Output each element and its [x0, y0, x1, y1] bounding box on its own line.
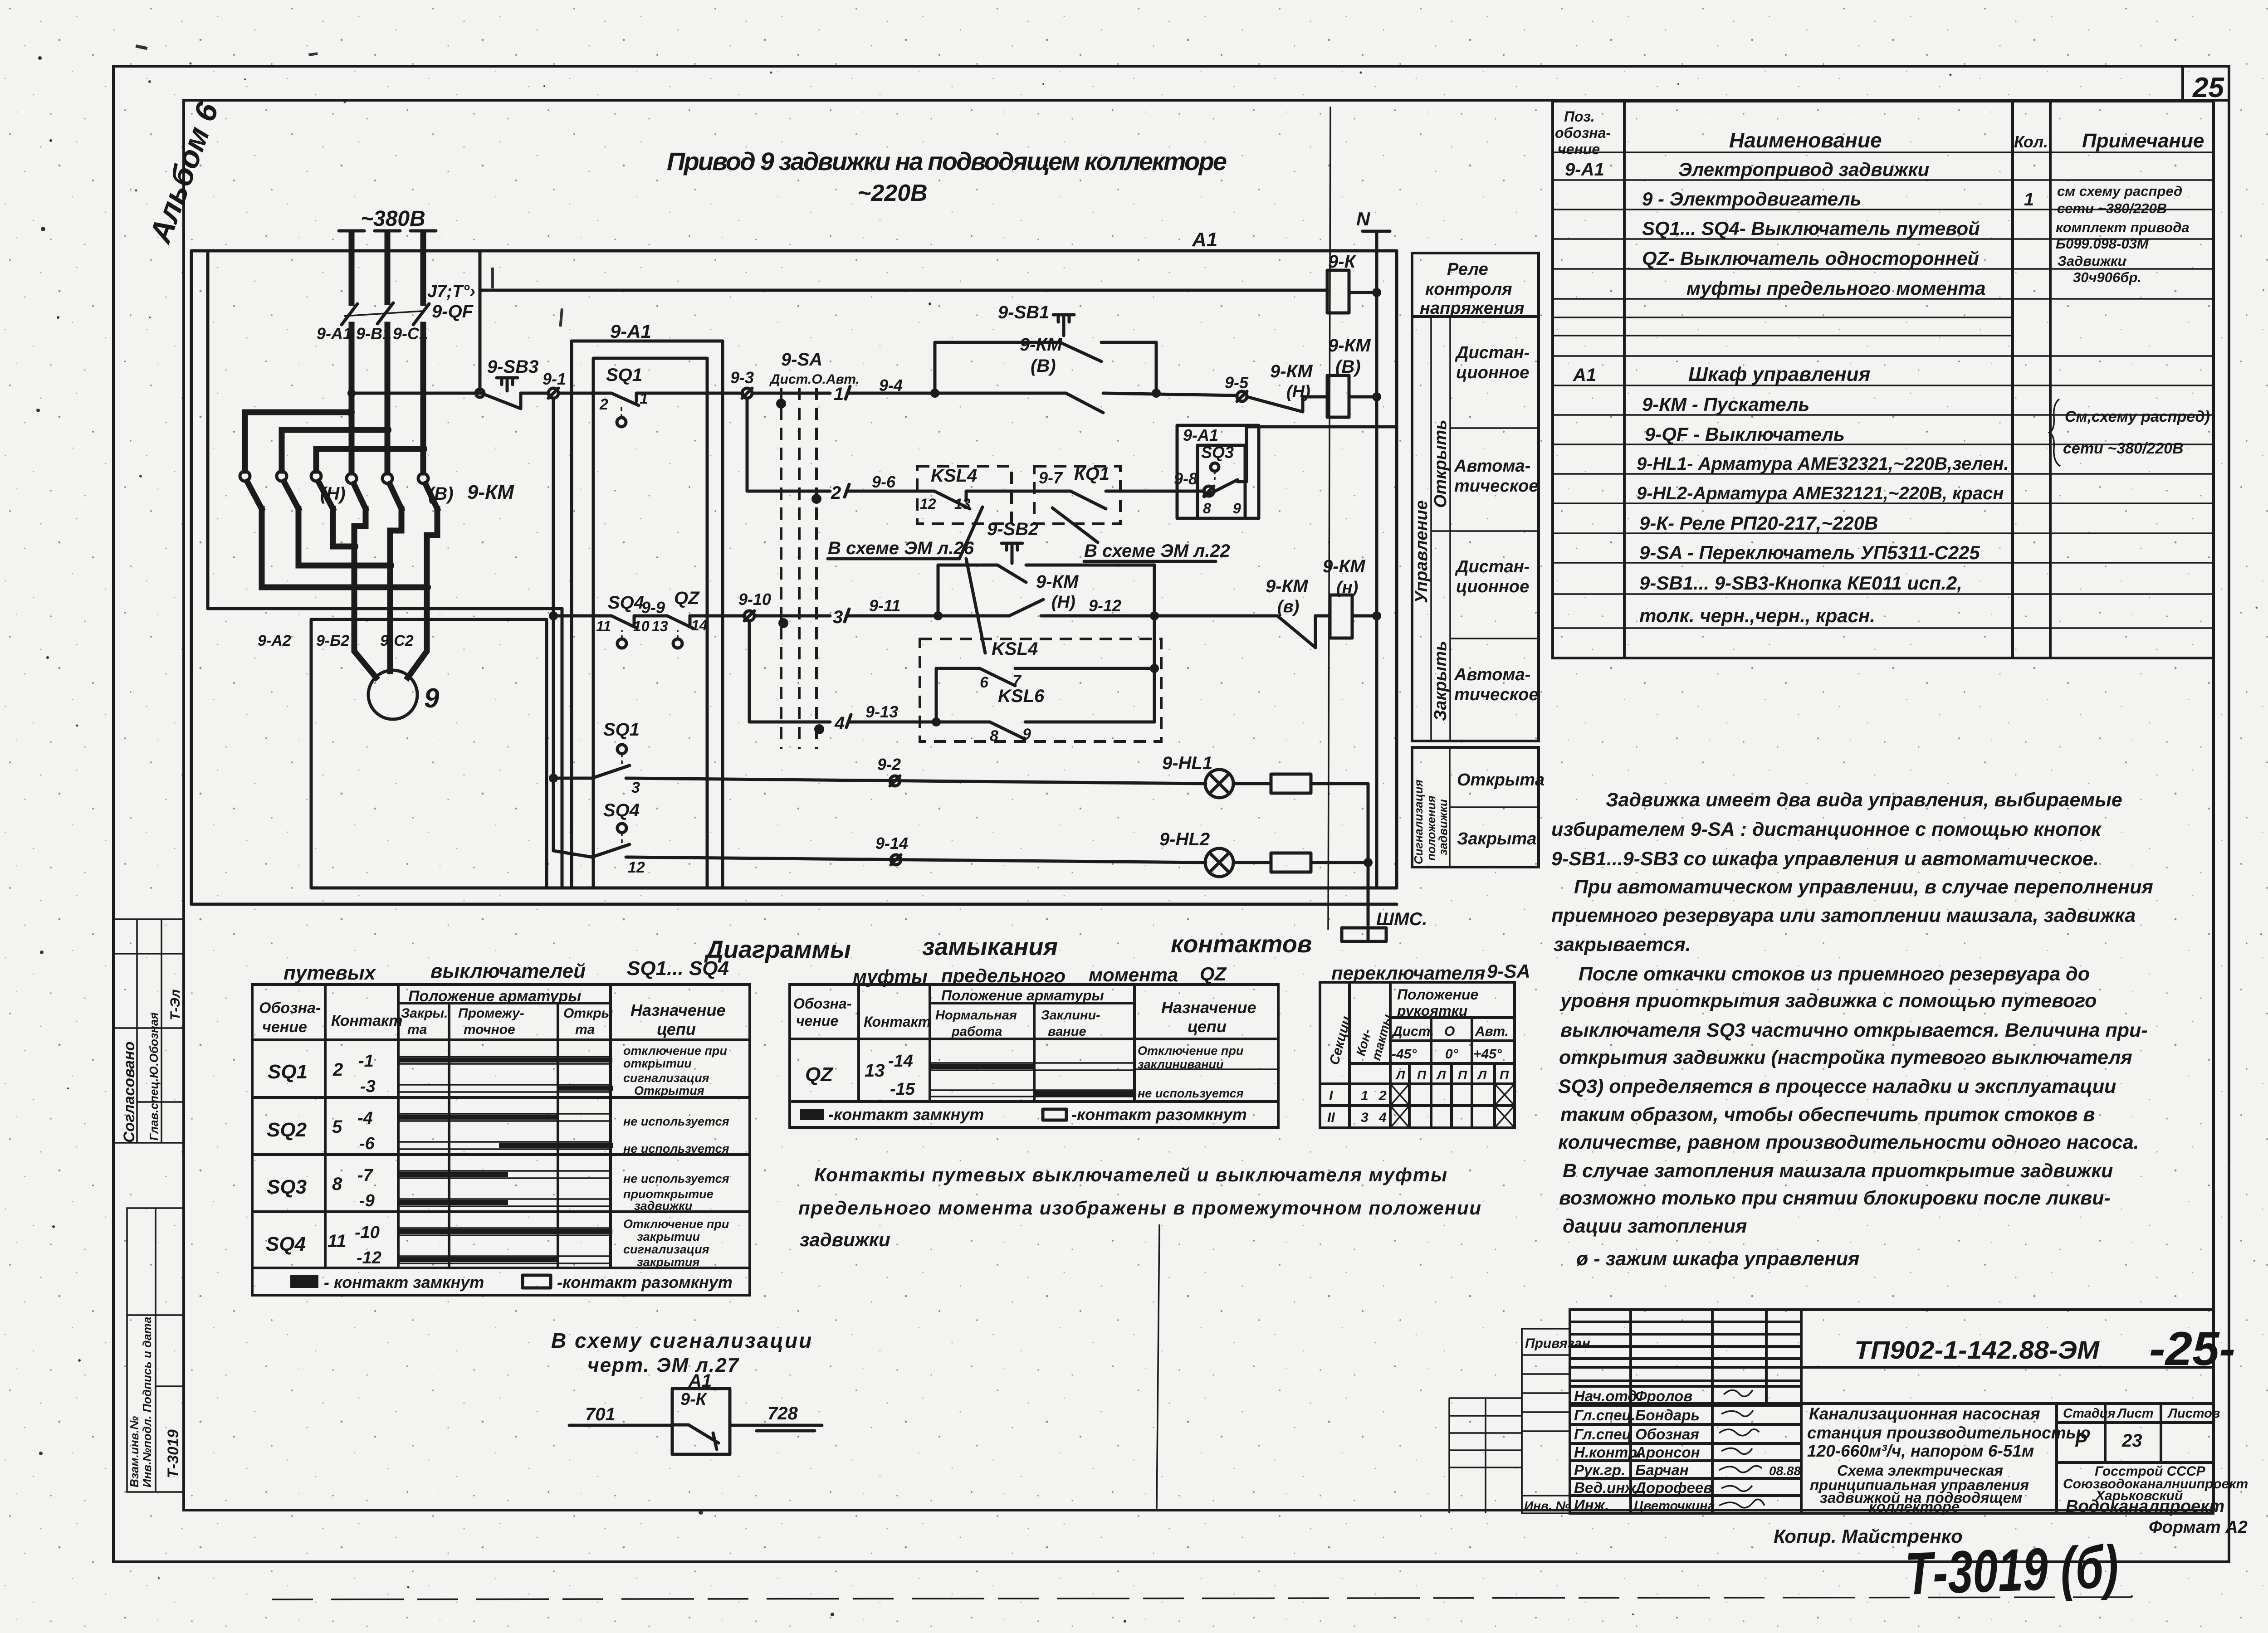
- SB2 branch wire to right: [1026, 564, 1154, 567]
- svg-text:В схеме ЭМ л.22: В схеме ЭМ л.22: [1084, 541, 1230, 561]
- svg-text:(В): (В): [428, 484, 454, 504]
- SQ2 closed bars: [399, 1115, 613, 1148]
- rung2 wire: [846, 490, 934, 493]
- svg-text:Т-3019: Т-3019: [165, 1429, 182, 1478]
- svg-text:ТП902-1-142.88-ЭМ: ТП902-1-142.88-ЭМ: [1854, 1336, 2100, 1364]
- wire to coil 9-KM(B): [1303, 395, 1327, 399]
- motor box left: [310, 619, 313, 888]
- selector dot rung1: [776, 399, 786, 409]
- svg-text:9-КМ - Пускатель: 9-КМ - Пускатель: [1642, 394, 1809, 415]
- SA header Положение рукоятки: [1397, 986, 1478, 1019]
- QZ table: [790, 985, 1278, 1127]
- phase bus B cap: [375, 229, 400, 233]
- junction 9-K neutral: [1372, 288, 1381, 297]
- big caption Диаграммы замыкания контактов: [704, 931, 1312, 963]
- drawing name: [1810, 1462, 2029, 1515]
- svg-text:2: 2: [1378, 1088, 1387, 1103]
- svg-text:чение: чение: [262, 1019, 307, 1036]
- svg-text:9-КМ: 9-КМ: [1270, 361, 1313, 381]
- junction latch right: [1152, 389, 1161, 398]
- svg-text:обозна-: обозна-: [1555, 125, 1611, 141]
- svg-text:предельного момента изоб: предельного момента изображены в промежу…: [798, 1197, 1481, 1219]
- svg-text:количестве, равном производит: количестве, равном производительности од…: [1558, 1131, 2139, 1153]
- terminal 9-3: [742, 388, 752, 398]
- SA header Дист О Авт: [1391, 1024, 1509, 1039]
- contactor 9-KM (B) pole 2: [382, 473, 401, 531]
- svg-text:9-SB2: 9-SB2: [987, 519, 1038, 539]
- component table frame: [1553, 101, 2214, 658]
- leader note В схеме ЭМ л.22: [1052, 508, 1230, 561]
- svg-text:Цветочкина: Цветочкина: [1634, 1499, 1715, 1513]
- rung3 wire to interlock: [1041, 614, 1277, 618]
- svg-text:Шкаф управления: Шкаф управления: [1688, 363, 1871, 385]
- SA row I: [1329, 1088, 1387, 1103]
- wire resistor to collector: [1311, 782, 1368, 785]
- svg-text:Отключение при: Отключение при: [1138, 1044, 1244, 1058]
- junction 9-KM(B) neutral: [1372, 392, 1381, 401]
- svg-text:П: П: [1417, 1068, 1427, 1082]
- svg-text:-контакт замкнут: -контакт замкнут: [828, 1105, 984, 1124]
- button 9-SB1 head: [1053, 315, 1074, 336]
- sheet number box 25: [2183, 66, 2229, 103]
- svg-text:Дист.О.Авт.: Дист.О.Авт.: [769, 372, 860, 387]
- svg-text:напряжения: напряжения: [1420, 299, 1525, 318]
- svg-text:9-11: 9-11: [869, 596, 900, 615]
- breaker 9-QF pole B contact: [377, 303, 393, 324]
- svg-text:КQ1: КQ1: [1074, 464, 1110, 484]
- svg-text:Гл.спец: Гл.спец: [1574, 1426, 1632, 1443]
- terminal 9-2: [890, 776, 900, 786]
- svg-text:9-С2: 9-С2: [380, 632, 414, 649]
- SQ header Назначение цепи: [631, 1001, 726, 1038]
- breaker 9-QF pole A contact: [342, 304, 357, 325]
- svg-text:Промежу-: Промежу-: [458, 1006, 524, 1021]
- QZ header Нормальная работа: [935, 1008, 1017, 1039]
- svg-text:2: 2: [332, 1060, 343, 1080]
- svg-text:Гл.спец.: Гл.спец.: [1574, 1407, 1636, 1423]
- svg-text:Нач.отд.: Нач.отд.: [1574, 1388, 1641, 1404]
- selector dot rung3: [778, 618, 788, 628]
- svg-text:предельного: предельного: [941, 965, 1066, 986]
- svg-text:Рук.гр.: Рук.гр.: [1574, 1462, 1625, 1478]
- svg-text:-9: -9: [359, 1191, 375, 1210]
- partial-open switch box inner: [1198, 445, 1245, 518]
- rung 1 open-command line: [352, 392, 482, 395]
- phase C feeder below breaker: [420, 325, 426, 473]
- QZ legend closed: [800, 1105, 984, 1124]
- purpose отключение при открытии: [623, 1044, 727, 1070]
- svg-text:ø - зажим шкафа управле: ø - зажим шкафа управления: [1576, 1248, 1859, 1270]
- svg-text:30ч906бр.: 30ч906бр.: [2073, 269, 2141, 285]
- SQ col dividers: [325, 985, 611, 1268]
- interlock contact 9-KM(H) NC: [1247, 396, 1303, 412]
- terminal 9-8: [1204, 486, 1214, 496]
- rung 9-2 wire: [626, 778, 1206, 784]
- svg-text:-контакт разомкнут: -контакт разомкнут: [557, 1273, 733, 1292]
- leader note В схеме ЭМ л.26: [828, 507, 985, 653]
- QZ header Заклинивание: [1041, 1008, 1100, 1039]
- note Контакты путевых выключателей: [798, 1164, 1481, 1250]
- svg-text:Реле: Реле: [1447, 260, 1488, 279]
- enclosure bottom rail: [311, 887, 1397, 890]
- cell Дистанционное (open): [1450, 343, 1539, 428]
- svg-text:Б099.098-03М: Б099.098-03М: [2056, 236, 2149, 252]
- side column Привязан: [1522, 1329, 1590, 1513]
- junction rung3 SB2 right: [1150, 611, 1159, 620]
- SA row II: [1327, 1110, 1387, 1125]
- svg-text:Положение арматуры: Положение арматуры: [941, 987, 1104, 1004]
- svg-text:сигнализация: сигнализация: [623, 1071, 709, 1085]
- rung 3 close-command line: [553, 614, 611, 618]
- svg-text:9-7: 9-7: [1039, 468, 1063, 487]
- purpose приоткрытие задвижки: [623, 1187, 714, 1213]
- QZ header Обозначение: [793, 995, 851, 1029]
- svg-text:QZ: QZ: [674, 588, 700, 608]
- KSL4 lower contact: [980, 668, 1015, 686]
- node 3 tick: [845, 609, 849, 622]
- signature row Вед инж: [1574, 1479, 1712, 1496]
- svg-text:9-А1: 9-А1: [1183, 426, 1218, 444]
- svg-text:Задвижки: Задвижки: [2058, 253, 2126, 269]
- wire coil 9-K to neutral: [1349, 291, 1377, 294]
- svg-text:Открытия: Открытия: [634, 1084, 704, 1097]
- svg-text:6: 6: [980, 674, 989, 691]
- project description: [1807, 1404, 2091, 1460]
- header Поз.обозначение: [1555, 108, 1611, 157]
- rung4 wire to right riser: [1025, 721, 1154, 724]
- drive unit box 9-A1 inner: [593, 358, 707, 888]
- svg-text:точное: точное: [464, 1022, 515, 1037]
- svg-text:П: П: [1458, 1068, 1467, 1082]
- link N-contact3 to motor lead A: [333, 544, 354, 550]
- relay 9-K feed line: [480, 289, 1327, 292]
- svg-text:4: 4: [834, 713, 845, 733]
- coil 9-KM(B): [1327, 375, 1349, 417]
- svg-text:Примечание: Примечание: [2082, 130, 2204, 152]
- right edge scan noise band: [2253, 54, 2268, 1516]
- node at 9-SB3: [476, 389, 484, 397]
- svg-text:9-9: 9-9: [641, 598, 665, 617]
- KSL lower dashed box: [920, 639, 1161, 741]
- svg-text:9-КМ: 9-КМ: [1036, 572, 1079, 592]
- svg-text:QZ: QZ: [805, 1063, 834, 1086]
- SB2 branch top wire: [938, 564, 997, 567]
- svg-text:Т-3019 (б): Т-3019 (б): [1904, 1533, 2120, 1607]
- svg-text:Барчан: Барчан: [1635, 1462, 1689, 1478]
- svg-text:Контакт: Контакт: [864, 1014, 931, 1030]
- svg-text:Водоканалпроект: Водоканалпроект: [2066, 1497, 2224, 1516]
- enclosure right edge: [1395, 251, 1398, 888]
- terminal 9-5: [1237, 391, 1247, 401]
- svg-text:2: 2: [831, 483, 841, 503]
- svg-text:Фролов: Фролов: [1635, 1388, 1692, 1404]
- svg-text:та: та: [575, 1022, 595, 1037]
- svg-text:9-5: 9-5: [1225, 373, 1249, 392]
- SA X mark row2 col6: [1495, 1106, 1515, 1128]
- QZ table frame: [790, 985, 1278, 1127]
- svg-text:закрытия: закрытия: [637, 1255, 700, 1269]
- junction phase A tap: [347, 408, 355, 416]
- svg-text:9-13: 9-13: [865, 702, 898, 721]
- caption муфты предельного момента QZ: [853, 963, 1227, 987]
- SQ header lines: [252, 1003, 750, 1268]
- SA rotated header Контакты: [1354, 1013, 1395, 1062]
- svg-text:цепи: цепи: [1188, 1017, 1227, 1036]
- svg-text:Инж.: Инж.: [1574, 1497, 1609, 1513]
- motor lead C: [408, 535, 427, 678]
- svg-text:SQ4: SQ4: [608, 593, 644, 613]
- svg-text:~380В: ~380В: [361, 207, 425, 231]
- junction latch left: [930, 389, 939, 398]
- svg-text:13: 13: [954, 496, 971, 512]
- junction rung3 left: [549, 611, 558, 620]
- svg-text:не используется: не используется: [623, 1172, 729, 1185]
- SA header angles: [1392, 1047, 1502, 1062]
- junction on lead B: [386, 561, 394, 570]
- svg-text:9-Б2: 9-Б2: [316, 632, 349, 649]
- svg-text:ционное: ционное: [1456, 577, 1529, 596]
- SQ1 designation: [268, 1052, 376, 1096]
- rung4 wire: [848, 721, 990, 724]
- junction KSL right: [1150, 664, 1159, 673]
- svg-text:А1: А1: [1192, 229, 1217, 251]
- SA X mark row1 col6: [1495, 1084, 1515, 1106]
- terminal 9-14: [891, 855, 901, 865]
- svg-text:(В): (В): [1031, 356, 1056, 376]
- svg-text:Закрыта: Закрыта: [1457, 829, 1536, 848]
- partial-open switch box 9-A1 outer: [1177, 425, 1259, 518]
- crossover loop phase A to reverse contact 1: [245, 412, 351, 471]
- svg-text:KSL4: KSL4: [931, 466, 977, 486]
- SB2 branch left riser: [937, 565, 940, 616]
- inner drawing frame: [184, 100, 2214, 1510]
- SQ header Закрыта: [401, 1006, 448, 1037]
- svg-text:коллекторе: коллекторе: [1869, 1498, 1960, 1515]
- svg-text:Автома-: Автома-: [1454, 665, 1530, 684]
- svg-text:см схему распред: см схему распред: [2057, 183, 2182, 199]
- svg-text:закрывается.: закрывается.: [1554, 934, 1691, 955]
- relay column header box: [1412, 253, 1539, 317]
- svg-text:Назначение: Назначение: [1161, 998, 1256, 1017]
- svg-text:Закры.: Закры.: [401, 1006, 448, 1021]
- svg-text:путевых: путевых: [283, 962, 376, 984]
- selector dashed line O: [798, 388, 801, 749]
- SB2 branch right riser: [1153, 565, 1156, 722]
- SQ1 state rows: [398, 1057, 611, 1092]
- selector dot rung2: [811, 494, 821, 504]
- phase bus A bar: [349, 232, 355, 303]
- KSL4 lower branch top wire: [936, 667, 980, 670]
- SQ header Открыта: [563, 1006, 613, 1037]
- contactor 9-KM (N) pole 2: [277, 471, 298, 565]
- signature row Инж: [1574, 1497, 1715, 1513]
- svg-text:KSL4: KSL4: [992, 639, 1038, 659]
- svg-text:9-КМ: 9-КМ: [1328, 336, 1371, 356]
- motor 9 circle: [368, 670, 417, 719]
- SQ3 designation: [267, 1166, 375, 1210]
- junction 9-KM(H) neutral: [1372, 611, 1381, 620]
- svg-text:9-КМ: 9-КМ: [1323, 556, 1366, 576]
- selector dot rung4: [814, 724, 824, 734]
- signature row Нач отд: [1574, 1388, 1692, 1404]
- svg-text:закрытии: закрытии: [637, 1230, 700, 1243]
- motor box top: [311, 618, 547, 621]
- SQ3 closed bars: [399, 1172, 508, 1205]
- svg-text:-10: -10: [355, 1223, 380, 1242]
- SQ2 designation: [267, 1109, 375, 1153]
- svg-text:заклинивании: заклинивании: [1138, 1058, 1224, 1071]
- SQ4 contact on rung3: [611, 616, 637, 648]
- SQ3 plunger: [1211, 463, 1219, 481]
- cell Открыта: [1450, 770, 1545, 807]
- svg-text:П: П: [1500, 1068, 1509, 1082]
- svg-text:Лист: Лист: [2116, 1406, 2154, 1421]
- svg-text:тическое: тическое: [1454, 685, 1539, 704]
- wire to terminal 9-8: [1106, 490, 1204, 493]
- enclosure outer left edge: [190, 251, 193, 904]
- svg-text:не используется: не используется: [623, 1115, 729, 1128]
- signature row Гл спец: [1574, 1407, 1700, 1423]
- SQ1 lamp contact: [592, 745, 630, 778]
- lamp rung 9-2 from SQ1: [549, 774, 592, 783]
- svg-text:1: 1: [834, 384, 844, 404]
- lamp rung 9-14 from SQ4: [553, 851, 592, 857]
- rotated label Сигнализация положения задвижки: [1412, 747, 1450, 867]
- wire 701: [569, 1404, 672, 1425]
- SQ3 state rows: [398, 1171, 611, 1206]
- bottom torn edge line: [272, 1597, 2132, 1599]
- fuse ШМС: [1342, 928, 1386, 941]
- button 9-SB2 contact: [997, 565, 1026, 582]
- row 9 Электродвигатель: [1642, 188, 2034, 210]
- svg-text:Поз.: Поз.: [1564, 108, 1595, 125]
- wire 728: [730, 1404, 822, 1431]
- rotated label Открыть: [1431, 317, 1450, 741]
- svg-text:SQ3) определяется в процессе: SQ3) определяется в процессе наладки и э…: [1558, 1076, 2116, 1097]
- note комплект привода: [2056, 219, 2190, 252]
- svg-text:3: 3: [1361, 1110, 1369, 1125]
- SQ4 designation: [266, 1223, 381, 1267]
- svg-text:9-1: 9-1: [543, 370, 566, 388]
- svg-text:уровня приоткрытия задвижка: уровня приоткрытия задвижка с помощью пу…: [1559, 990, 2097, 1012]
- svg-text:(Н): (Н): [1051, 593, 1075, 612]
- relay 9-K coil: [1327, 270, 1349, 313]
- QZ header Назначение цепи: [1161, 998, 1256, 1036]
- caption путевых выключателей SQ1...SQ4: [283, 957, 729, 984]
- svg-text:9-10: 9-10: [738, 590, 771, 609]
- svg-text:8: 8: [332, 1174, 342, 1194]
- svg-text:Открыта: Открыта: [1457, 770, 1545, 790]
- caption переключателя 9-SA: [1331, 960, 1530, 984]
- lamp 9-HL2: [1205, 848, 1233, 877]
- interlock contact 9-KM(B) NC on rung3: [1277, 616, 1315, 648]
- wire QZ to terminal 9-10: [690, 614, 745, 618]
- svg-text:SQ2: SQ2: [267, 1119, 307, 1141]
- svg-text:2: 2: [599, 396, 608, 413]
- svg-text:9-К- Реле РП20-217,~220В: 9-К- Реле РП20-217,~220В: [1639, 512, 1878, 534]
- svg-text:-1: -1: [358, 1052, 374, 1071]
- svg-text:После откачки стоков из пр: После откачки стоков из приемного резерв…: [1579, 963, 2090, 985]
- signature scribbles: [1719, 1390, 1765, 1508]
- SQ legend closed: [290, 1273, 484, 1292]
- svg-text:не используется: не используется: [623, 1142, 729, 1155]
- svg-text:Контакты путевых выключат: Контакты путевых выключателей и выключат…: [814, 1164, 1447, 1185]
- contactor box corner drop: [561, 609, 564, 888]
- svg-text:Бондарь: Бондарь: [1635, 1407, 1700, 1423]
- svg-text:9-QF - Выключатель: 9-QF - Выключатель: [1645, 424, 1845, 445]
- cell Автоматическое (open): [1431, 457, 1539, 531]
- svg-text:станция производительностью: станция производительностью: [1807, 1423, 2091, 1442]
- svg-text:вание: вание: [1048, 1024, 1086, 1039]
- svg-text:Открыть: Открыть: [1431, 419, 1450, 508]
- signature row Н контр: [1574, 1444, 1700, 1461]
- neutral rail cap: [1363, 230, 1390, 233]
- svg-text:9-НL2: 9-НL2: [1159, 829, 1210, 849]
- svg-text:I: I: [1329, 1088, 1333, 1103]
- svg-text:Назначение: Назначение: [631, 1001, 726, 1019]
- svg-text:выключателей: выключателей: [430, 960, 586, 982]
- svg-text:9-SA: 9-SA: [781, 350, 822, 370]
- motor box right: [545, 619, 548, 888]
- table row lines: [1553, 152, 2214, 628]
- svg-text:Привод 9 задвижки на подводяще: Привод 9 задвижки на подводящем коллекто…: [667, 147, 1227, 175]
- svg-text:дации затопления: дации затопления: [1563, 1215, 1747, 1237]
- svg-text:0°: 0°: [1445, 1047, 1459, 1062]
- svg-text:25: 25: [2192, 72, 2224, 103]
- QZ state rows: [930, 1063, 1278, 1097]
- svg-text:~220В: ~220В: [857, 180, 928, 206]
- svg-text:9-НL2-Арматура АМЕ32121,~220В: 9-НL2-Арматура АМЕ32121,~220В, красн: [1637, 483, 2004, 503]
- svg-text:Электропривод задвижки: Электропривод задвижки: [1678, 159, 1929, 180]
- svg-text:В случае затопления машзала: В случае затопления машзала приоткрытие …: [1563, 1160, 2113, 1182]
- junction collector: [1364, 858, 1373, 867]
- svg-text:Листов: Листов: [2167, 1406, 2220, 1421]
- phase B feeder below breaker: [385, 325, 391, 473]
- signature row Рук гр: [1574, 1462, 1801, 1478]
- cell Дистанционное (close): [1450, 557, 1539, 639]
- node 2 tick: [845, 484, 849, 497]
- svg-text:задвижки: задвижки: [800, 1229, 890, 1250]
- column Наименование divider: [2011, 101, 2014, 658]
- node 1 tick: [846, 386, 850, 399]
- svg-text:II: II: [1327, 1110, 1335, 1125]
- svg-text:избирателем 9-SА : дистанцион: избирателем 9-SА : дистанционное с помощ…: [1551, 819, 2102, 840]
- svg-text:Обозна-: Обозна-: [793, 995, 851, 1012]
- breaker 9-QF trip linkage: [344, 311, 422, 316]
- SQ4 lamp contact: [592, 824, 630, 857]
- svg-text:120-660м³/ч, напором 6-51м: 120-660м³/ч, напором 6-51м: [1807, 1442, 2034, 1460]
- QZ col dividers: [859, 985, 1134, 1102]
- svg-text:8: 8: [1203, 500, 1211, 517]
- svg-text:толк. черн.,черн., красн.: толк. черн.,черн., красн.: [1639, 605, 1875, 626]
- svg-text:та: та: [407, 1022, 427, 1037]
- svg-text:9-НL1- Арматура АМЕ32321,~220: 9-НL1- Арматура АМЕ32321,~220В,зелен.: [1637, 454, 2009, 474]
- lamp 9-HL1: [1205, 770, 1233, 798]
- terminal 9-1: [548, 388, 558, 398]
- svg-text:-15: -15: [890, 1080, 915, 1099]
- svg-text:+45°: +45°: [1473, 1047, 1502, 1062]
- svg-text:Н.контр.: Н.контр.: [1574, 1444, 1641, 1461]
- cell Автоматическое (close): [1454, 665, 1539, 704]
- SA header Л П row: [1395, 1068, 1509, 1082]
- QZ closed bars: [931, 1064, 1134, 1096]
- 9-SA table: [1320, 982, 1515, 1128]
- SA table frame: [1320, 982, 1515, 1128]
- svg-text:QZ- Выключатель односторонне: QZ- Выключатель односторонней: [1642, 248, 1979, 269]
- contactor 9-KM (N) pole 3: [311, 471, 333, 546]
- note см схему распред сети: [2057, 183, 2182, 216]
- svg-text:Стадия: Стадия: [2063, 1406, 2116, 1421]
